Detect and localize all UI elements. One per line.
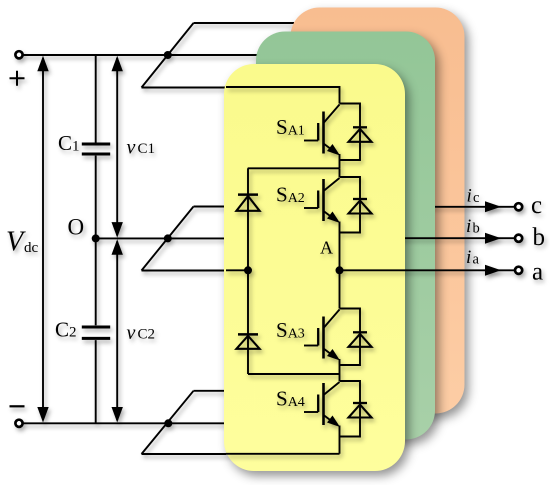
wire : node A to SA3 collector <box>339 270 341 308</box>
svg-text:C2: C2 <box>138 327 156 343</box>
svg-text:i: i <box>466 216 471 237</box>
wire : capacitor chain vertical <box>95 55 97 423</box>
phase-a box (yellow) <box>224 64 405 471</box>
junction dot on bottom bus <box>164 419 172 427</box>
terminal b <box>515 235 522 242</box>
junction dot on O wire <box>164 234 172 242</box>
transistor SA2 (IGBT with antiparallel diode) <box>304 177 372 233</box>
svg-text:dc: dc <box>24 240 39 256</box>
terminal + (circle) <box>15 51 22 58</box>
svg-text:b: b <box>533 224 546 251</box>
junction dot clamp midpoint <box>244 266 252 274</box>
wire : SA1 emitter to clamp rail <box>248 160 340 168</box>
phase-c box (orange) <box>291 8 465 414</box>
svg-text:i: i <box>467 186 472 207</box>
svg-text:v: v <box>127 322 136 344</box>
measurement arrow Vdc <box>37 56 48 423</box>
measurement arrow vC1 <box>112 56 123 238</box>
terminal a <box>515 267 522 274</box>
top tap parallelogram <box>142 23 295 88</box>
capacitor C1 <box>82 144 110 154</box>
svg-text:C1: C1 <box>58 131 80 155</box>
arrow head phase a current <box>485 265 501 276</box>
svg-text:V: V <box>6 227 26 258</box>
node O junction dot <box>92 234 100 242</box>
wire : output phase c <box>428 206 514 208</box>
svg-text:c: c <box>531 192 542 219</box>
arrow head phase b current <box>485 233 501 244</box>
node O wire <box>96 237 226 239</box>
svg-text:C2: C2 <box>55 318 77 342</box>
capacitor C2 <box>82 327 110 338</box>
terminal c <box>515 203 522 210</box>
svg-text:a: a <box>532 259 543 286</box>
wire : output phase b <box>396 237 514 239</box>
terminal - (circle) <box>15 420 22 427</box>
svg-text:a: a <box>473 252 480 268</box>
transistor SA3 (IGBT with antiparallel diode) <box>304 309 372 366</box>
measurement arrow vC2 <box>112 239 123 422</box>
wire : neutral tap into clamp midpoint <box>226 269 249 271</box>
svg-text:c: c <box>473 190 479 206</box>
node A junction dot <box>336 266 344 274</box>
label + <box>10 71 25 86</box>
transistor SA1 (IGBT with antiparallel diode) <box>304 104 372 161</box>
wire : from + bus into SA1 collector <box>226 87 340 104</box>
label - <box>10 405 25 407</box>
transistor SA4 (IGBT with antiparallel diode) <box>304 381 372 437</box>
clamp diode D1 <box>247 168 249 270</box>
wire : SA2 emitter down to node A <box>339 233 341 271</box>
clamp diode D2 <box>248 270 340 374</box>
wire : top DC bus from + terminal <box>23 54 259 56</box>
svg-text:v: v <box>127 137 136 159</box>
svg-text:O: O <box>68 215 85 240</box>
wire : output phase a from node A <box>340 269 515 271</box>
svg-text:C1: C1 <box>138 141 156 157</box>
arrow head phase c current <box>485 201 501 212</box>
svg-text:i: i <box>466 247 471 268</box>
wire : SA4 emitter to bottom rail <box>226 437 340 454</box>
svg-text:A: A <box>320 238 333 258</box>
svg-text:b: b <box>473 221 480 237</box>
bottom tap parallelogram <box>142 391 228 454</box>
wire : SA3 emitter to SA4 collector <box>339 365 341 381</box>
wire : bottom DC bus from - terminal <box>23 422 226 424</box>
phase-b box (green) <box>256 32 435 440</box>
wire : SA1 emitter to SA2 collector <box>339 168 341 177</box>
middle tap parallelogram <box>142 207 228 271</box>
junction dot on top bus <box>164 51 172 59</box>
